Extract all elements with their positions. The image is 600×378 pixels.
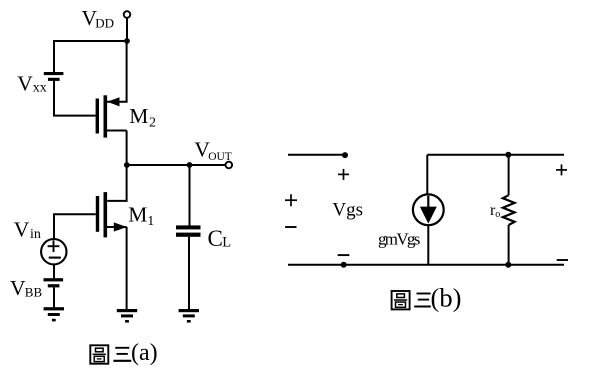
node gate [342,152,348,158]
label M2 [129,104,156,130]
label Vin [14,218,41,242]
wire VBB to ground [53,287,55,307]
ground M1 [117,309,137,323]
svg-text:in: in [30,227,41,242]
wire Vin to M1 gate [54,214,96,239]
svg-text:DD: DD [95,15,114,30]
terminal VOUT [226,162,233,169]
resistor ro [503,195,515,225]
svg-text:BB: BB [25,285,43,300]
wire node A to Vxx battery [54,41,127,73]
terminal VDD [124,11,131,18]
source Vin [41,239,66,264]
wire ro to bottom rail [508,225,510,265]
node A (VDD junction) [124,38,130,44]
label Vxx [17,72,47,96]
wire output node to VOUT terminal [127,164,226,166]
wire output node to M1 drain [107,165,126,201]
label M1 [128,203,154,229]
svg-text:2: 2 [149,115,156,130]
label VBB [10,276,42,300]
label VOUT [194,138,231,163]
label - (above bottom rail) [338,254,350,256]
label CL [208,226,232,251]
node drain top [505,152,511,158]
svg-text:Vgs: Vgs [332,199,363,220]
wire M2 drain to output node [126,131,128,167]
svg-text:M: M [128,203,147,227]
node drain bottom [505,262,511,268]
node VOUT junction [124,162,130,168]
svg-text:(a): (a) [131,340,158,366]
transistor M1 [96,192,127,237]
svg-text:C: C [208,226,223,251]
glyph 三 [414,294,431,307]
wire M1 source to ground [126,227,128,310]
wire Vin to VBB battery [53,265,55,279]
glyph 圖 [90,345,108,363]
transistor M2 [96,95,127,137]
caption figure b [392,282,462,312]
wire Vxx battery to M2 gate [54,81,96,116]
svg-text:o: o [495,209,500,220]
battery VBB [44,278,64,287]
svg-text:M: M [129,104,148,128]
label - (right) [557,259,568,261]
wire top rail [427,154,564,156]
ground VBB [44,307,64,321]
svg-text:V: V [17,72,33,96]
label VDD [82,6,114,30]
label + (left) [285,194,297,206]
wire CL branch [189,165,191,226]
wire source bottom rail [288,264,564,266]
ground CL [179,309,199,323]
svg-text:V: V [10,276,26,300]
wire node A to M2 source [107,41,127,102]
svg-text:(b): (b) [431,282,462,312]
wire VDD terminal to node A [126,18,128,41]
svg-text:V: V [14,218,30,242]
label - (left) [285,226,296,228]
label ro [490,202,500,220]
caption figure a [90,340,157,366]
svg-text:L: L [222,235,231,251]
svg-text:1: 1 [147,214,154,229]
node CL junction [187,162,193,168]
current source gmVgs [413,194,444,264]
label + (below gate node) [338,169,349,180]
node source left [341,262,347,268]
glyph 圖 [392,291,410,309]
wire top rail to ro [508,155,510,195]
wire CL to ground [188,237,190,310]
wire gate terminal [288,154,345,156]
glyph 三 [113,348,131,361]
svg-text:gmVgs: gmVgs [378,229,420,248]
wire current source to top rail [426,155,428,194]
battery Vxx [44,72,64,81]
svg-text:OUT: OUT [208,151,232,163]
label + (right) [556,164,567,175]
capacitor CL [176,225,201,236]
svg-text:xx: xx [33,80,47,95]
